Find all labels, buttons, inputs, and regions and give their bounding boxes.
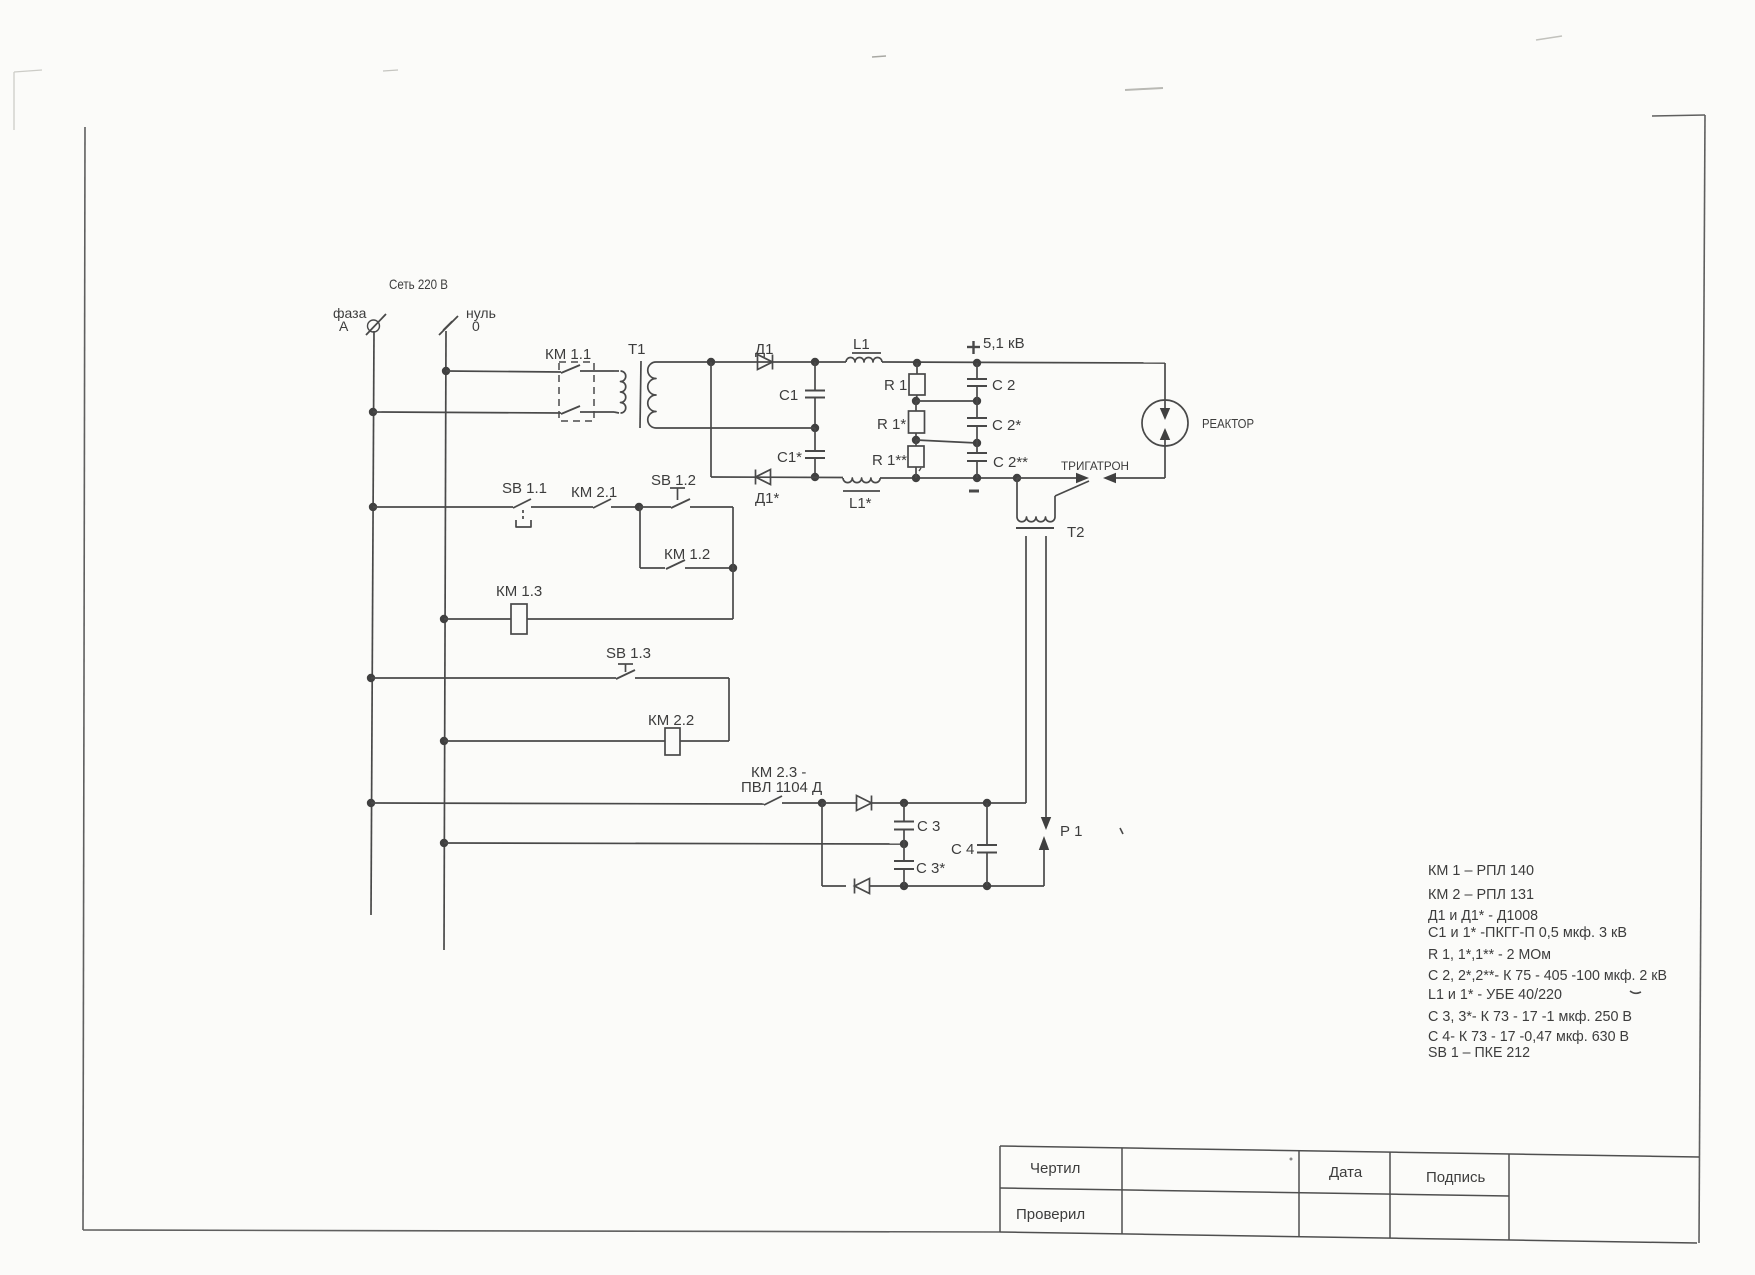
svg-text:L1 и 1* - УБЕ 40/220: L1 и 1* - УБЕ 40/220 [1428,986,1562,1003]
svg-text:С 3*: С 3* [916,860,945,877]
svg-text:С 2*: С 2* [992,417,1021,434]
svg-text:Д1: Д1 [755,341,774,358]
svg-text:РЕАКТОР: РЕАКТОР [1202,417,1254,431]
svg-text:R 1**: R 1** [872,452,907,469]
svg-text:С 2: С 2 [992,377,1015,394]
svg-text:КМ 2.2: КМ 2.2 [648,712,694,729]
svg-text:0: 0 [472,318,480,334]
svg-text:SB 1.2: SB 1.2 [651,472,696,489]
svg-text:SB 1.3: SB 1.3 [606,645,651,662]
svg-text:R 1*: R 1* [877,416,906,433]
svg-text:нуль: нуль [466,305,496,321]
svg-text:С1: С1 [779,387,798,404]
svg-text:С1*: С1* [777,449,802,466]
svg-text:L1: L1 [853,336,870,353]
svg-text:А: А [339,318,349,334]
svg-text:КМ 1.2: КМ 1.2 [664,546,710,563]
svg-text:С 4: С 4 [951,841,974,858]
svg-text:Д1 и Д1* - Д1008: Д1 и Д1* - Д1008 [1428,907,1538,924]
svg-text:SB 1 – ПКЕ 212: SB 1 – ПКЕ 212 [1428,1044,1530,1061]
svg-text:R 1, 1*,1** - 2 МОм: R 1, 1*,1** - 2 МОм [1428,946,1551,963]
svg-text:ПВЛ 1104 Д: ПВЛ 1104 Д [741,779,822,796]
svg-text:С 3: С 3 [917,818,940,835]
svg-text:КМ 1.3: КМ 1.3 [496,583,542,600]
svg-text:КМ 2 – РПЛ 131: КМ 2 – РПЛ 131 [1428,886,1534,903]
svg-text:КМ 2.1: КМ 2.1 [571,484,617,501]
svg-text:Р 1: Р 1 [1060,823,1083,840]
svg-text:С1 и 1* -ПКГГ-П 0,5 мкф. 3 кВ: С1 и 1* -ПКГГ-П 0,5 мкф. 3 кВ [1428,924,1627,941]
svg-text:Т1: Т1 [628,341,646,358]
svg-text:ТРИГАТРОН: ТРИГАТРОН [1061,459,1129,473]
svg-text:С 3, 3*- К 73 - 17 -1 мкф. 250: С 3, 3*- К 73 - 17 -1 мкф. 250 В [1428,1008,1632,1025]
svg-text:Д1*: Д1* [755,490,780,507]
svg-text:R 1: R 1 [884,377,907,394]
svg-text:Дата: Дата [1329,1164,1363,1181]
svg-text:КМ 1 – РПЛ 140: КМ 1 – РПЛ 140 [1428,862,1534,879]
svg-text:Сеть 220 В: Сеть 220 В [389,276,448,292]
svg-text:С 2**: С 2** [993,454,1028,471]
svg-text:Т2: Т2 [1067,524,1085,541]
svg-text:Проверил: Проверил [1016,1206,1085,1223]
svg-text:Подпись: Подпись [1426,1169,1486,1186]
svg-text:С 2, 2*,2**- К 75 - 405 -100 м: С 2, 2*,2**- К 75 - 405 -100 мкф. 2 кВ [1428,967,1667,984]
svg-text:КМ 1.1: КМ 1.1 [545,346,591,363]
svg-text:5,1 кВ: 5,1 кВ [983,335,1025,352]
svg-text:Чертил: Чертил [1030,1160,1080,1177]
svg-text:SB 1.1: SB 1.1 [502,480,547,497]
svg-text:С 4- К 73 - 17 -0,47 мкф. 630: С 4- К 73 - 17 -0,47 мкф. 630 В [1428,1028,1629,1045]
svg-text:L1*: L1* [849,495,872,512]
